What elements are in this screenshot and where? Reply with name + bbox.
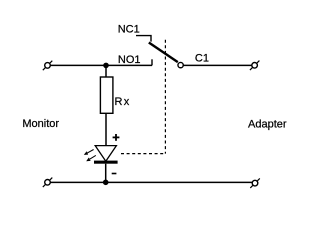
- switch S1 NC lead: [136, 36, 151, 42]
- svg-text:NC1: NC1: [118, 23, 140, 35]
- LED D1 light arrow 1: [85, 150, 94, 155]
- resistor Rx lead top: [105, 65, 107, 77]
- label NO1: [118, 54, 141, 66]
- resistor Rx body: [100, 77, 113, 113]
- LED D1 minus label: [112, 173, 117, 175]
- svg-text:Adapter: Adapter: [248, 118, 287, 130]
- wire C1 (switch common to adapter terminal): [183, 64, 252, 66]
- svg-text:Monitor: Monitor: [22, 118, 59, 130]
- resistor Rx lead bottom / LED anode lead: [105, 113, 107, 146]
- dashed mechanical link vertical: [164, 40, 166, 154]
- svg-text:NO1: NO1: [118, 54, 141, 66]
- LED D1 cathode lead: [105, 164, 107, 183]
- svg-text:Rx: Rx: [115, 96, 131, 108]
- label NC1: [118, 23, 140, 35]
- label Rx: [115, 96, 131, 108]
- wire bottom (monitor to adapter): [50, 181, 252, 183]
- terminal X1 (Monitor top): [43, 61, 53, 70]
- label C1: [195, 53, 209, 65]
- label Adapter: [248, 118, 287, 130]
- LED D1 plus label: [113, 134, 120, 141]
- LED D1 cathode bar: [94, 161, 118, 164]
- LED D1 triangle: [95, 146, 116, 162]
- terminal X2 (Monitor bottom): [43, 178, 53, 188]
- wire top (monitor terminal to NO contact): [50, 64, 152, 66]
- junction node A (top): [103, 63, 109, 69]
- switch S1 NO tick: [151, 59, 153, 65]
- label Monitor: [22, 118, 59, 130]
- svg-text:C1: C1: [195, 53, 209, 65]
- switch S1 blade: [149, 43, 178, 63]
- dashed mechanical link horizontal: [121, 153, 165, 155]
- terminal X3 (Adapter top): [250, 61, 260, 71]
- LED D1 light arrow 2: [87, 155, 96, 160]
- switch S1 pivot circle: [178, 62, 183, 67]
- junction node B (bottom): [103, 180, 109, 186]
- terminal X4 (Adapter bottom): [250, 178, 259, 188]
